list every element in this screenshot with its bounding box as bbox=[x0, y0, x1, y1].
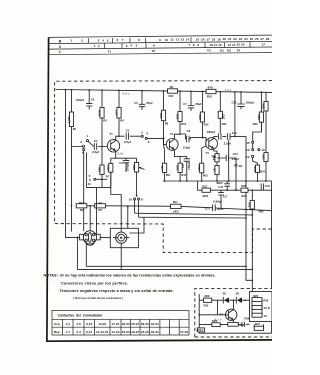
svg-text:9: 9 bbox=[141, 197, 143, 201]
C9 labels bbox=[181, 161, 191, 170]
svg-text:6: 6 bbox=[153, 44, 155, 48]
svg-text:6: 6 bbox=[148, 140, 150, 144]
svg-text:T: T bbox=[59, 51, 62, 55]
capacitor C3 2,5µf bbox=[124, 129, 132, 144]
svg-text:R9: R9 bbox=[165, 121, 169, 125]
capacitor C8 2,5µf bbox=[183, 129, 191, 149]
resistor R7 2K2 emitter bbox=[106, 158, 113, 187]
wire pair B right end into supply bbox=[251, 215, 253, 292]
svg-text:2K2: 2K2 bbox=[106, 165, 110, 171]
switch contact 4 bbox=[145, 137, 147, 139]
transistor T1 bbox=[107, 140, 119, 152]
svg-text:R22: R22 bbox=[255, 322, 261, 326]
svg-text:22: 22 bbox=[233, 37, 237, 41]
svg-text:Rep.: Rep. bbox=[54, 330, 61, 334]
svg-text:R6: R6 bbox=[120, 119, 124, 123]
capacitor C15 38nf shunt bbox=[224, 181, 230, 190]
svg-text:13: 13 bbox=[181, 38, 185, 42]
svg-text:30-34: 30-34 bbox=[151, 330, 159, 334]
svg-text:R18: R18 bbox=[207, 94, 213, 98]
svg-text:16: 16 bbox=[261, 148, 265, 152]
wire contact 8 to R4 bottom bbox=[96, 178, 107, 180]
resistor R10 in rail bbox=[168, 85, 178, 98]
resistor R20 emitter bbox=[212, 151, 219, 165]
svg-text:2: 2 bbox=[80, 140, 82, 144]
riser from J1 feed wire to bus B bbox=[76, 237, 78, 269]
svg-text:2: 2 bbox=[81, 39, 83, 43]
pot arrow bbox=[139, 167, 144, 169]
svg-text:R21: R21 bbox=[197, 328, 203, 332]
svg-text:D2: D2 bbox=[236, 292, 240, 296]
wire x229 column down to gnd bus bbox=[228, 140, 230, 181]
svg-text:R11: R11 bbox=[166, 173, 171, 177]
capacitor C2 2,5µf bbox=[92, 139, 100, 154]
svg-text:11: 11 bbox=[171, 38, 175, 42]
svg-text:6,3 v: 6,3 v bbox=[123, 92, 130, 96]
svg-text:( Visto por el lado de las con: ( Visto por el lado de las conexiones ) bbox=[73, 296, 123, 300]
junction dot collector bbox=[233, 299, 235, 301]
svg-text:5: 5 bbox=[136, 44, 138, 48]
svg-text:C16: C16 bbox=[231, 101, 237, 105]
wire output column x246 down bbox=[246, 136, 252, 280]
bank resistor R30 bbox=[244, 313, 267, 320]
resistor R13 39K bbox=[175, 91, 186, 134]
svg-text:20-22: 20-22 bbox=[122, 322, 130, 326]
svg-text:25-27: 25-27 bbox=[131, 322, 139, 326]
bus A horizontal y266.5 bbox=[86, 265, 246, 267]
svg-text:9: 9 bbox=[159, 38, 161, 42]
connector J1 socket bbox=[80, 231, 101, 245]
svg-text:4K7: 4K7 bbox=[114, 110, 118, 116]
resistor R19 390 bbox=[204, 294, 212, 307]
resistor R4 180 bbox=[97, 147, 104, 180]
resistor R26 820 bbox=[248, 190, 255, 215]
svg-text:27: 27 bbox=[260, 37, 264, 41]
svg-text:7: 7 bbox=[189, 43, 191, 47]
svg-text:12: 12 bbox=[176, 38, 180, 42]
transistor T3 bbox=[206, 138, 218, 150]
svg-text:R19: R19 bbox=[204, 304, 210, 308]
transistor T4 bbox=[226, 309, 237, 320]
svg-text:7: 7 bbox=[122, 38, 124, 42]
wire emitter node to C14 bbox=[217, 151, 236, 164]
capacitor 330pf bbox=[207, 130, 221, 140]
transistor T2 bbox=[166, 139, 178, 151]
svg-text:56K: 56K bbox=[97, 109, 101, 115]
supply rail wire bbox=[56, 90, 273, 93]
T4 collector wire bbox=[232, 300, 234, 309]
resistor R29 10K right edge bbox=[261, 153, 268, 181]
svg-text:C3: C3 bbox=[126, 129, 130, 133]
svg-text:1K2: 1K2 bbox=[197, 165, 201, 171]
wire contact stack down bend bbox=[87, 153, 102, 188]
svg-text:Tensiones negativas respecto a: Tensiones negativas respecto a masa y si… bbox=[60, 289, 174, 293]
svg-text:T3: T3 bbox=[207, 49, 211, 53]
resistor R21 15 bbox=[212, 165, 219, 181]
wire emitter to C9 bbox=[180, 155, 187, 157]
svg-text:82nf: 82nf bbox=[217, 207, 224, 211]
resistor bank solid box bbox=[250, 292, 273, 322]
svg-text:22K: 22K bbox=[132, 164, 136, 170]
svg-text:17-21: 17-21 bbox=[112, 322, 120, 326]
svg-text:D1: D1 bbox=[223, 292, 227, 296]
svg-text:R16: R16 bbox=[204, 123, 210, 127]
bank resistor 13K bbox=[252, 305, 271, 310]
connector J2 socket bbox=[113, 228, 129, 248]
ground-return wire segment y187.6 bbox=[102, 172, 111, 187]
T2 collector wire up bbox=[174, 134, 185, 139]
switch table row Gra bbox=[54, 322, 159, 326]
svg-text:11: 11 bbox=[88, 182, 92, 186]
svg-text:R14: R14 bbox=[181, 173, 187, 177]
svg-text:3K9: 3K9 bbox=[79, 201, 85, 205]
svg-text:19-23: 19-23 bbox=[122, 330, 130, 334]
junction dot base wire bbox=[198, 314, 200, 316]
svg-text:3: 3 bbox=[141, 130, 143, 134]
svg-text:T3: T3 bbox=[206, 151, 210, 155]
resistor R9 10K bbox=[159, 91, 169, 139]
svg-text:C18: C18 bbox=[265, 184, 271, 188]
svg-text:180: 180 bbox=[97, 167, 101, 172]
switch contacts 10 9 bbox=[134, 198, 136, 200]
capacitor bank bottom bbox=[242, 322, 244, 327]
bottom gnd wire supply bbox=[199, 330, 271, 333]
capacitor C10 2,5µf bbox=[224, 131, 238, 145]
capacitor C18 right edge bbox=[261, 184, 270, 191]
switch table column lines bbox=[63, 319, 180, 335]
svg-text:13-23: 13-23 bbox=[98, 322, 106, 326]
svg-text:330pf: 330pf bbox=[207, 130, 216, 134]
svg-text:2,5µf: 2,5µf bbox=[124, 140, 132, 144]
svg-text:56K: 56K bbox=[253, 165, 257, 171]
svg-text:10K: 10K bbox=[159, 112, 163, 118]
svg-text:2K2: 2K2 bbox=[173, 210, 179, 214]
svg-text:T1: T1 bbox=[110, 132, 114, 136]
svg-text:11: 11 bbox=[214, 43, 218, 47]
resistor R2 3K9 bbox=[76, 201, 87, 212]
svg-text:16: 16 bbox=[241, 43, 245, 47]
resistor R27 bbox=[253, 165, 260, 181]
junction dots wire A bbox=[245, 209, 253, 211]
wire contact18 column down bbox=[235, 166, 237, 190]
svg-text:13: 13 bbox=[246, 148, 250, 152]
svg-text:R5: R5 bbox=[98, 208, 102, 212]
switch contact 7 bbox=[83, 149, 85, 151]
capacitor C14 4,8µf bbox=[226, 152, 239, 161]
svg-text:13 K: 13 K bbox=[263, 306, 270, 310]
svg-text:R24: R24 bbox=[260, 170, 266, 174]
svg-text:9-11: 9-11 bbox=[86, 330, 92, 334]
switch table row Rep bbox=[54, 330, 188, 334]
junction dot R4 bottom bbox=[101, 178, 103, 180]
svg-text:R12: R12 bbox=[173, 200, 179, 204]
dashed enclosure of amplifier block bbox=[55, 81, 272, 253]
svg-text:R3: R3 bbox=[103, 119, 107, 123]
svg-text:6: 6 bbox=[117, 38, 119, 42]
svg-text:28: 28 bbox=[266, 37, 270, 41]
wire ladder mid rung y191.8 bbox=[198, 181, 272, 190]
wire R1 column down to connector area bbox=[71, 147, 73, 232]
wire T3 base bias down bbox=[202, 144, 206, 148]
resistor 320 under T4 bbox=[228, 322, 245, 326]
svg-text:R28: R28 bbox=[253, 122, 259, 126]
switch contact 1 bbox=[86, 140, 88, 142]
svg-text:21: 21 bbox=[228, 37, 232, 41]
capacitor C4 100µf bbox=[123, 158, 129, 172]
input wire to base network bbox=[72, 142, 111, 147]
resistor 23K right edge bbox=[261, 92, 268, 152]
header row T/D designators bbox=[108, 48, 241, 53]
svg-text:T2: T2 bbox=[170, 132, 174, 136]
svg-text:10K: 10K bbox=[261, 153, 265, 159]
switch contact 8 with stack 5 8 11 bbox=[94, 178, 96, 180]
svg-text:C14: C14 bbox=[233, 152, 239, 156]
T1 collector wire up bbox=[116, 136, 125, 140]
wire rail corner down at x235 bbox=[234, 92, 236, 136]
wire J1 right tab to J2 bbox=[100, 236, 113, 238]
wire R2-R5 link bbox=[87, 205, 106, 207]
svg-text:4: 4 bbox=[130, 44, 132, 48]
svg-text:25µf: 25µf bbox=[195, 102, 202, 106]
emitter bottom wire bbox=[199, 322, 271, 334]
contact numbers 1 2 7 bbox=[80, 134, 88, 155]
svg-text:390: 390 bbox=[204, 294, 209, 298]
capacitor C9 100µf bbox=[184, 156, 190, 181]
wire R19 to D1 bbox=[212, 300, 224, 315]
svg-text:820: 820 bbox=[212, 319, 217, 323]
wire J2 bottom down to bus B bbox=[120, 249, 122, 270]
wire base node down to R11 bbox=[164, 144, 165, 150]
svg-text:3: 3 bbox=[98, 38, 100, 42]
switch table row lines bbox=[52, 319, 189, 327]
resistor R6 4K7 bbox=[114, 90, 124, 136]
resistor R16 33K bbox=[198, 91, 209, 137]
svg-text:14: 14 bbox=[232, 43, 236, 47]
connector J2 square flange bbox=[110, 228, 138, 247]
svg-text:1,5Mo: 1,5Mo bbox=[67, 114, 71, 123]
long signal wire A with R12 C11 bbox=[106, 206, 271, 211]
resistor R12 2K2 bbox=[164, 200, 181, 213]
wire rail left column to connector J1 bbox=[66, 90, 84, 238]
junction dots rung bbox=[226, 189, 253, 191]
capacitor C17 0,84µf shunt bbox=[218, 190, 224, 209]
svg-text:25pf: 25pf bbox=[146, 101, 153, 105]
resistor R15 under T3 base bbox=[197, 148, 208, 181]
C4 labels bbox=[119, 161, 129, 171]
capacitor C11 82nf bbox=[205, 204, 224, 211]
svg-text:1: 1 bbox=[94, 44, 96, 48]
wire into J2 flange pin bbox=[127, 207, 129, 229]
svg-text:10: 10 bbox=[210, 43, 214, 47]
wire pot bottom to long wire pair bbox=[135, 200, 253, 218]
svg-text:39K: 39K bbox=[175, 113, 179, 119]
contact numbers 3 4 6 bbox=[141, 130, 150, 144]
junction dot R16 bottom bbox=[202, 137, 204, 139]
svg-text:820: 820 bbox=[253, 294, 258, 298]
svg-text:15: 15 bbox=[212, 168, 216, 172]
svg-text:4,8µf: 4,8µf bbox=[232, 157, 240, 161]
resistor R20 2K7 from rail bbox=[218, 92, 227, 134]
switch contact 18 bbox=[235, 164, 237, 166]
diode D2 bbox=[229, 292, 242, 304]
wire junction down to J1 top bbox=[89, 206, 91, 231]
svg-text:C2: C2 bbox=[94, 139, 98, 143]
svg-text:2: 2 bbox=[98, 44, 100, 48]
resistor 820 under T4 left bbox=[212, 319, 220, 327]
svg-text:19-27: 19-27 bbox=[131, 330, 139, 334]
svg-text:0,84µf: 0,84µf bbox=[213, 200, 223, 204]
T3 emitter wire bbox=[214, 149, 217, 151]
svg-text:C15: C15 bbox=[218, 185, 224, 189]
svg-text:20: 20 bbox=[223, 37, 227, 41]
potentiometer 22K bbox=[132, 158, 139, 196]
junction dot R2 left bbox=[71, 205, 73, 207]
wire C8 to T3 base bbox=[185, 138, 208, 144]
svg-text:0,5v: 0,5v bbox=[118, 152, 124, 156]
wire into R19 bbox=[199, 299, 203, 301]
svg-text:1-7: 1-7 bbox=[66, 330, 71, 334]
svg-text:Contactos del conmutador: Contactos del conmutador bbox=[58, 314, 104, 318]
svg-text:18: 18 bbox=[239, 164, 243, 168]
switch contacts 15 13 16 12 cluster bbox=[252, 141, 254, 143]
svg-text:29-30: 29-30 bbox=[141, 322, 149, 326]
svg-text:27-29: 27-29 bbox=[180, 330, 188, 334]
wire C13 to right column bbox=[230, 135, 246, 137]
switch table frame bbox=[52, 311, 189, 336]
T4 emitter wire bbox=[232, 320, 234, 322]
svg-text:26: 26 bbox=[255, 37, 259, 41]
header row C numbers bbox=[94, 43, 265, 49]
svg-text:1: 1 bbox=[86, 134, 88, 138]
svg-text:2,5µf: 2,5µf bbox=[224, 142, 232, 146]
svg-text:4-6: 4-6 bbox=[76, 322, 81, 326]
svg-text:C6: C6 bbox=[91, 97, 95, 101]
svg-text:14-16: 14-16 bbox=[112, 330, 120, 334]
svg-text:23: 23 bbox=[239, 37, 243, 41]
svg-text:33-34: 33-34 bbox=[151, 322, 159, 326]
svg-text:220pf: 220pf bbox=[76, 98, 85, 102]
capacitor C16 200µf bbox=[231, 92, 254, 109]
junction dot R9 base node bbox=[163, 138, 165, 140]
svg-text:R20: R20 bbox=[222, 122, 228, 126]
bank resistor 820 bbox=[252, 294, 269, 303]
svg-text:10: 10 bbox=[129, 197, 133, 201]
capacitor C5 25pf bbox=[134, 91, 153, 110]
svg-text:R17: R17 bbox=[202, 184, 208, 188]
svg-text:200µf: 200µf bbox=[246, 101, 255, 105]
svg-text:T1: T1 bbox=[108, 50, 112, 54]
svg-text:NOTAS:- Si no hay otra indicac: NOTAS:- Si no hay otra indicación los va… bbox=[44, 274, 216, 278]
T4 base wire bbox=[199, 314, 228, 316]
junction dot R2-R5 bbox=[89, 205, 91, 207]
svg-text:Conectores vistos por los perf: Conectores vistos por los perfiles. bbox=[61, 282, 128, 286]
vertical wire x271.6 down right edge bbox=[271, 181, 273, 288]
ground bus junction dots bbox=[164, 180, 267, 182]
switch contact 2 bbox=[82, 145, 84, 147]
svg-text:10: 10 bbox=[165, 38, 169, 42]
svg-text:33K: 33K bbox=[198, 113, 202, 119]
svg-text:1: 1 bbox=[71, 39, 73, 43]
junction dot collector node R6 bbox=[118, 135, 120, 137]
wire R28 bottom to contact 15 bbox=[253, 122, 262, 165]
svg-text:4: 4 bbox=[146, 132, 148, 136]
wire D2 to resistor bank bbox=[242, 299, 252, 301]
T3 collector wire up bbox=[214, 136, 226, 138]
capacitor C7 25µf bbox=[183, 91, 202, 111]
svg-text:8: 8 bbox=[193, 43, 195, 47]
svg-text:2,5µf: 2,5µf bbox=[92, 150, 100, 154]
svg-text:C17: C17 bbox=[223, 194, 229, 198]
junction dot base node bbox=[101, 146, 103, 148]
svg-text:22: 22 bbox=[98, 201, 102, 205]
svg-text:C5: C5 bbox=[134, 101, 138, 105]
svg-text:D2: D2 bbox=[227, 49, 231, 53]
svg-text:C8: C8 bbox=[187, 129, 191, 133]
svg-text:24-26: 24-26 bbox=[141, 330, 149, 334]
svg-text:470: 470 bbox=[208, 85, 213, 89]
svg-text:C7: C7 bbox=[183, 102, 187, 106]
svg-text:9: 9 bbox=[197, 43, 199, 47]
wire R9 bottom to base node bbox=[163, 139, 165, 145]
svg-text:8: 8 bbox=[138, 38, 140, 42]
svg-text:17: 17 bbox=[262, 43, 266, 47]
header table frame bbox=[49, 35, 272, 55]
svg-text:Gra.: Gra. bbox=[54, 322, 60, 326]
svg-text:19: 19 bbox=[217, 37, 221, 41]
svg-text:18: 18 bbox=[212, 37, 216, 41]
svg-text:2,5µf: 2,5µf bbox=[183, 145, 191, 149]
ground bus wire bbox=[163, 180, 272, 182]
svg-text:14: 14 bbox=[186, 38, 190, 42]
svg-text:18K: 18K bbox=[257, 114, 261, 120]
svg-text:R16: R16 bbox=[203, 173, 209, 177]
resistor R25 820 bbox=[241, 184, 248, 198]
junction dot T4 collector node bbox=[244, 299, 246, 301]
resistor R1 1,5M bbox=[67, 112, 77, 147]
wire J2 right side out bbox=[129, 217, 144, 233]
svg-text:12: 12 bbox=[218, 43, 222, 47]
resistor R14 emitter bbox=[176, 156, 187, 181]
svg-text:R: R bbox=[59, 40, 62, 44]
svg-text:15: 15 bbox=[246, 141, 250, 145]
svg-text:R1: R1 bbox=[73, 127, 77, 131]
svg-text:3: 3 bbox=[126, 44, 128, 48]
svg-text:100µf: 100µf bbox=[125, 163, 129, 172]
wire conn2 column down bbox=[111, 188, 121, 232]
svg-text:3K9: 3K9 bbox=[202, 194, 208, 198]
rail junction dots bbox=[65, 89, 263, 93]
svg-text:1-2: 1-2 bbox=[66, 322, 71, 326]
wire contact 4 to T2 base bbox=[147, 139, 169, 145]
header row R group ticks bbox=[89, 37, 191, 43]
junction dot wire pair right bbox=[245, 214, 253, 219]
svg-text:100µf: 100µf bbox=[187, 161, 191, 170]
svg-text:15: 15 bbox=[237, 43, 241, 47]
svg-text:4: 4 bbox=[102, 38, 104, 42]
svg-text:T2: T2 bbox=[152, 49, 156, 53]
svg-text:15: 15 bbox=[196, 38, 200, 42]
capacitor C6 220pf bbox=[86, 90, 92, 110]
svg-text:R10: R10 bbox=[169, 94, 175, 98]
svg-text:C: C bbox=[59, 45, 62, 49]
header row R numbers bbox=[71, 37, 270, 43]
svg-text:12-13-15: 12-13-15 bbox=[96, 330, 109, 334]
resistor R11 under base bbox=[160, 151, 171, 182]
svg-text:3-4: 3-4 bbox=[76, 330, 81, 334]
svg-text:23K: 23K bbox=[261, 103, 265, 109]
wire rail to R1 bbox=[71, 90, 73, 112]
svg-text:9-10: 9-10 bbox=[86, 322, 92, 326]
